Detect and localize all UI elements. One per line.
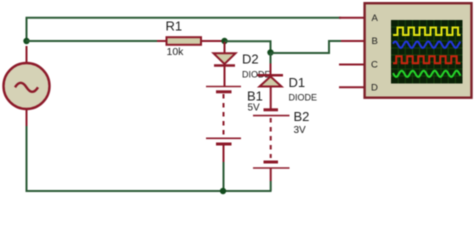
scope input stub C (red) [339,64,365,66]
scope input stub D (red) [339,86,365,88]
AC source V1 circle [4,63,50,109]
wire source top pin (red) [26,46,28,63]
scope input stub B (red) [341,40,365,42]
scope screen [391,20,463,84]
resistor R1 body [167,37,202,45]
wire source bottom pin (red) [26,109,28,126]
scope input stub A (red) [339,17,365,19]
diode D2 cathode bar [214,64,235,67]
svg-text:5V: 5V [248,103,261,114]
wire top net A from source to scope [27,18,342,41]
diode D2 anode pin (red) [224,42,226,53]
svg-text:D2: D2 [242,52,259,67]
svg-text:10k: 10k [167,46,185,58]
wire D1 to battery B2 (red) [270,87,272,110]
battery B2 [253,110,290,181]
battery B1 [206,87,241,163]
svg-text:A: A [372,13,379,24]
node junction at D1 branch [267,49,273,55]
trace channel D green sine wave [393,71,461,77]
svg-text:D1: D1 [289,75,306,90]
svg-text:R1: R1 [166,19,183,34]
wire D2 cathode to battery B1 (red) [224,67,226,87]
wire from D2 junction to D1 branch [225,41,271,52]
node junction at D2 branch [221,38,227,44]
svg-text:DIODE: DIODE [289,93,318,103]
wire main horizontal from source junction to R1 [26,40,157,42]
wire battery B1 to bottom rail [223,162,225,191]
trace channel A yellow square wave [393,28,461,36]
wire battery B2 to bottom rail [270,181,272,191]
svg-text:3V: 3V [294,125,307,136]
resistor R1 pins (red) [157,40,224,42]
oscilloscope body [365,3,472,98]
svg-text:B: B [372,36,378,47]
svg-text:D: D [371,83,378,94]
diode D2 triangle [214,53,236,64]
wire from D1 junction to scope input B [271,41,342,53]
trace channel B blue sine wave [393,42,461,48]
svg-text:B2: B2 [294,109,310,124]
node junction on bottom rail [220,188,226,194]
svg-text:B1: B1 [247,89,263,104]
svg-text:C: C [371,60,378,71]
wire left vertical to bottom rail [27,126,272,191]
diode D1 triangle [260,77,282,87]
diode D1 cathode bar [258,74,284,77]
wire D1 anode from junction (green then red) [270,53,272,75]
node junction at source top [23,38,29,44]
trace channel C red square wave [393,56,461,63]
